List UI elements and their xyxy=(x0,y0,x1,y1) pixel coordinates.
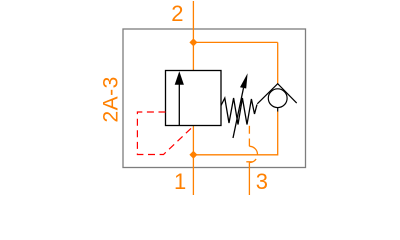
valve flow path arrowhead xyxy=(175,71,184,85)
wire port 1 vertical xyxy=(192,126,194,195)
svg-text:1: 1 xyxy=(174,169,186,194)
frame border xyxy=(123,29,306,168)
adjustment arrow shaft xyxy=(233,88,244,138)
valve body square xyxy=(166,71,222,126)
wire port 2 vertical xyxy=(192,1,194,71)
pilot line dashed red xyxy=(137,112,193,155)
check valve seat lines xyxy=(257,84,296,104)
valve flow path line xyxy=(178,84,180,126)
node junction bottom xyxy=(189,151,197,159)
wire top horizontal branch xyxy=(193,41,277,43)
node junction top xyxy=(189,38,197,46)
wire port 3 vertical xyxy=(248,163,250,196)
adjustment arrowhead xyxy=(240,73,248,88)
crossing hop arc xyxy=(249,146,257,162)
drain line dashed from spring xyxy=(248,126,250,147)
wire check valve to bottom corner xyxy=(193,111,277,155)
wire right branch vertical to check valve xyxy=(277,42,279,84)
spring zigzag xyxy=(221,98,257,125)
svg-text:2A-3: 2A-3 xyxy=(100,76,123,122)
hop bottom tick xyxy=(246,161,252,163)
svg-text:2: 2 xyxy=(171,1,183,26)
check valve bottom stub xyxy=(277,108,279,112)
svg-text:3: 3 xyxy=(256,169,268,194)
check valve ball circle xyxy=(268,89,287,108)
